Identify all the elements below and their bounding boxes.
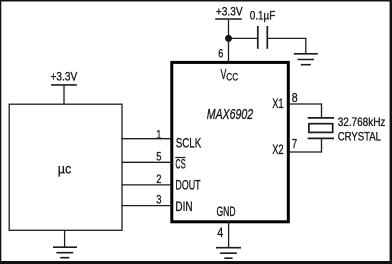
svg-text:7: 7 xyxy=(292,137,297,151)
svg-text:GND: GND xyxy=(217,204,236,219)
svg-text:8: 8 xyxy=(292,91,298,105)
wire: GND pin 4 down to ground xyxy=(228,221,230,248)
svg-text:µc: µc xyxy=(58,161,72,176)
svg-text:DIN: DIN xyxy=(175,199,192,214)
wire DOUT: µC to pin 2 xyxy=(121,184,171,186)
wire: supply rail down to VCC pin 6 xyxy=(228,20,230,63)
ground (capacitor) xyxy=(294,54,318,65)
IC U1 MAX6902 box xyxy=(172,62,288,221)
svg-text:2: 2 xyxy=(156,172,161,186)
pin label CS-bar (pin 5) xyxy=(175,157,185,172)
ground (below µC) xyxy=(53,247,77,258)
microcontroller µC box xyxy=(9,104,122,230)
svg-text:+3.3V: +3.3V xyxy=(51,70,78,84)
wire: crystal to pin 7 X2 xyxy=(288,139,321,152)
wire CS: µC to pin 5 xyxy=(121,161,171,163)
wire DIN: µC to pin 3 xyxy=(121,205,171,207)
ground (pin 4) xyxy=(216,248,241,259)
svg-text:0.1µF: 0.1µF xyxy=(250,9,275,23)
capacitor C1 0.1µF xyxy=(258,26,268,49)
wire: junction to capacitor xyxy=(229,37,258,39)
junction node (VCC rail / capacitor) xyxy=(225,35,232,42)
svg-text:X1: X1 xyxy=(272,96,283,111)
svg-text:CRYSTAL: CRYSTAL xyxy=(338,130,382,144)
+3.3V supply symbol (VCC rail) xyxy=(215,5,242,19)
svg-text:X2: X2 xyxy=(272,142,283,157)
svg-text:1: 1 xyxy=(156,128,161,142)
svg-text:CS: CS xyxy=(175,157,185,172)
svg-text:3: 3 xyxy=(156,193,161,207)
svg-text:MAX6902: MAX6902 xyxy=(207,107,254,123)
svg-text:4: 4 xyxy=(217,225,223,241)
wire: capacitor to ground (right) xyxy=(268,38,306,53)
wire: pin 8 X1 to crystal xyxy=(288,104,321,118)
svg-text:DOUT: DOUT xyxy=(175,178,200,193)
wire: µC supply to µC box xyxy=(63,86,65,105)
wire: µC box to ground xyxy=(64,230,66,247)
svg-text:SCLK: SCLK xyxy=(176,136,202,151)
svg-text:32.768kHz: 32.768kHz xyxy=(338,115,386,129)
+3.3V supply symbol (µC) xyxy=(51,70,78,85)
svg-text:+3.3V: +3.3V xyxy=(216,5,243,19)
svg-text:6: 6 xyxy=(218,47,223,61)
wire SCLK: µC to pin 1 xyxy=(121,138,171,140)
crystal Y1 xyxy=(308,118,334,138)
svg-text:CC: CC xyxy=(226,72,238,84)
svg-text:5: 5 xyxy=(156,149,161,163)
pin label VCC (pin 6) xyxy=(221,67,239,84)
